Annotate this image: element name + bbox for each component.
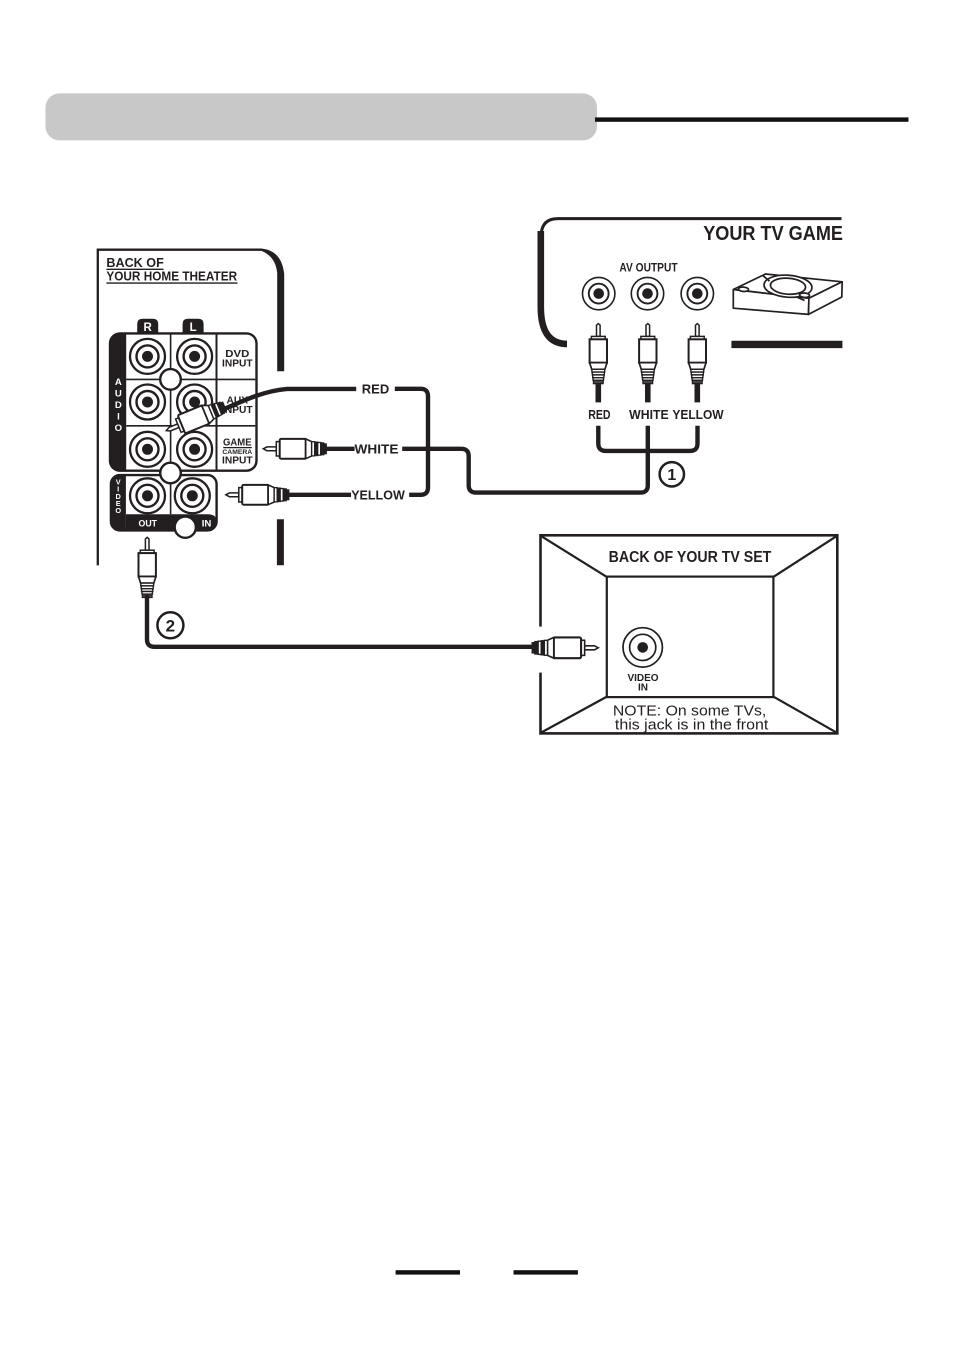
tv set perspective diagonal bottom-left <box>542 696 608 732</box>
svg-text:WHITE: WHITE <box>355 442 399 457</box>
jack GAME L <box>177 432 212 467</box>
footer line left <box>396 1270 460 1274</box>
wire yellow left stub <box>288 493 351 497</box>
tv game box bottom edge right segment <box>731 341 842 348</box>
tv game box left edge and corners <box>541 231 567 344</box>
svg-text:YOUR TV GAME: YOUR TV GAME <box>703 223 843 245</box>
svg-text:WHITE: WHITE <box>629 407 669 422</box>
tv set perspective diagonal bottom-right <box>772 696 836 732</box>
plug white (tv game) <box>639 324 656 384</box>
svg-text:BACK OF YOUR TV SET: BACK OF YOUR TV SET <box>609 549 772 566</box>
plug red diagonal (into aux input) <box>163 397 229 439</box>
svg-text:RED: RED <box>588 407 610 422</box>
audio panel row divider 1 <box>126 378 255 380</box>
L tab <box>183 319 204 335</box>
wire white plug tail <box>645 383 651 402</box>
video panel black bottom bar <box>126 514 217 530</box>
svg-text:1: 1 <box>667 467 676 484</box>
wire red plug tail <box>595 383 601 402</box>
wire yellow plug tail <box>694 383 700 402</box>
tv set outer box gap for plug <box>536 627 546 673</box>
svg-text:2: 2 <box>166 616 175 635</box>
wire white long run (tv game to home theater) <box>402 426 648 493</box>
jack AUX R <box>130 385 165 420</box>
svg-text:AV OUTPUT: AV OUTPUT <box>619 262 677 275</box>
jack GAME R <box>130 432 165 467</box>
plug yellow (into home theater) <box>226 485 290 505</box>
svg-text:IN: IN <box>638 683 648 694</box>
wire red diagonal from aux plug <box>222 389 357 410</box>
wire red-yellow bundle (tv game) <box>598 426 697 451</box>
tv set outer box <box>541 535 838 733</box>
video sidebar VIDEO text <box>115 477 121 515</box>
svg-text:U: U <box>115 389 122 400</box>
home theater outer box thick right edge bottom segment <box>277 519 284 565</box>
audio panel column divider 1 <box>170 333 172 470</box>
screw circle middle <box>160 463 181 484</box>
plug red (tv game) <box>590 324 607 384</box>
plug white (into home theater) <box>263 439 327 459</box>
svg-text:YELLOW: YELLOW <box>351 488 405 503</box>
svg-text:D: D <box>115 400 122 411</box>
jack DVD L <box>177 339 212 374</box>
header rule line <box>595 117 909 121</box>
svg-text:A: A <box>115 377 122 388</box>
svg-text:INPUT: INPUT <box>222 358 253 369</box>
screw circle top <box>160 369 181 390</box>
audio panel black sidebar <box>110 333 126 470</box>
video jack panel box <box>111 475 217 530</box>
callout circle 2 <box>157 612 183 638</box>
header grey bar <box>46 93 598 140</box>
wire red right segment down to yellow run <box>395 389 428 495</box>
svg-text:BACK OF: BACK OF <box>106 256 164 270</box>
footer line right <box>514 1270 578 1274</box>
svg-text:YELLOW: YELLOW <box>672 407 724 422</box>
jack VIDEO IN (tv set) <box>623 628 662 667</box>
jack DVD R <box>130 339 165 374</box>
tv set perspective diagonal top-right <box>772 536 836 577</box>
svg-text:RED: RED <box>362 381 389 396</box>
home theater outer box thick right edge top segment <box>262 249 285 372</box>
wire 2 run (video out to tv set) <box>147 595 535 647</box>
console icon <box>733 274 842 315</box>
audio panel row divider 2 <box>126 425 255 427</box>
screw circle bottom <box>175 517 196 538</box>
video panel black sidebar <box>111 475 126 530</box>
svg-text:OUT: OUT <box>139 518 158 529</box>
svg-text:this jack is in the front: this jack is in the front <box>615 718 768 734</box>
plug below VIDEO OUT <box>139 537 156 597</box>
jack AV yellow <box>681 277 713 309</box>
jack AV white <box>631 277 663 309</box>
R tab <box>137 319 158 335</box>
wire white left stub <box>326 447 354 451</box>
tv set inner box <box>607 577 774 698</box>
jack AUX L <box>177 385 212 420</box>
callout circle 1 <box>660 462 684 486</box>
jack VIDEO OUT <box>130 478 165 513</box>
home theater outer box thin edges <box>98 250 262 566</box>
svg-text:O: O <box>115 506 121 515</box>
plug yellow (tv game) <box>689 324 706 384</box>
svg-text:YOUR HOME THEATER: YOUR HOME THEATER <box>106 270 237 284</box>
svg-text:I: I <box>117 412 120 423</box>
svg-text:O: O <box>115 423 123 434</box>
jack AV red <box>583 277 615 309</box>
audio panel column divider 2 <box>216 333 218 470</box>
plug video (into tv set) <box>532 637 599 658</box>
video panel column divider <box>170 475 172 514</box>
svg-text:IN: IN <box>202 518 212 529</box>
audio jack panel box <box>110 333 257 470</box>
tv set perspective diagonal top-left <box>542 536 608 577</box>
jack VIDEO IN <box>175 478 210 513</box>
tv game box top edge <box>541 219 841 234</box>
audio sidebar AUDIO text <box>115 377 123 434</box>
svg-text:INPUT: INPUT <box>222 456 253 467</box>
